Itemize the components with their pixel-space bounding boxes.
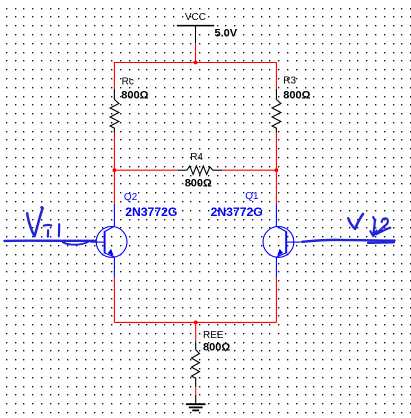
node Vi2 label: i dot — [373, 217, 375, 221]
wire: right vertical Q1 emitter to bottom rail — [275, 278, 277, 323]
svg-text:Q2: Q2 — [124, 192, 138, 203]
svg-text:800Ω: 800Ω — [121, 90, 148, 102]
node: junction bottom center — [194, 321, 198, 325]
node Vi1 label: i dash — [44, 224, 52, 227]
svg-text:Rc: Rc — [122, 76, 134, 87]
wire: REE to ground red segment — [195, 387, 197, 395]
node: junction left mid — [113, 168, 117, 172]
ground — [186, 395, 206, 410]
wire: REE stem red — [195, 322, 197, 341]
wire: top rail from Rc top to R3 top — [114, 63, 276, 90]
handwritten annotations — [5, 207, 395, 244]
svg-text:5.0V: 5.0V — [215, 28, 238, 40]
svg-text:R3: R3 — [283, 76, 296, 87]
wire: VCC stem red segment — [195, 43, 197, 62]
node Vi2 label: subscript 2 — [376, 218, 390, 234]
wire: middle rail right segment from R4 — [222, 169, 277, 171]
svg-text:800Ω: 800Ω — [283, 90, 310, 102]
wire: right vertical R3 bottom to Q1 collector — [275, 133, 277, 204]
wire: bottom rail — [114, 321, 276, 323]
wire: handwritten retrace swoosh left — [63, 242, 89, 245]
svg-text:REE: REE — [203, 330, 224, 341]
svg-text:800Ω: 800Ω — [185, 177, 212, 189]
node: junction at VCC / top rail — [194, 61, 198, 65]
node Vi1 label: subscript 1 left — [47, 230, 49, 236]
wire: left vertical Rc bottom to Q2 collector — [113, 133, 115, 204]
wire: left vertical Q2 emitter to bottom rail — [113, 278, 115, 323]
wire: handwritten input wire left (to Q2 base) — [5, 239, 97, 242]
wire: handwritten retrace right — [368, 241, 394, 244]
wire: middle rail left segment to R4 — [114, 169, 177, 171]
svg-text:2N3772G: 2N3772G — [125, 205, 177, 219]
power symbol VCC — [177, 26, 214, 44]
wire: handwritten input wire right (from Q1 base) — [302, 240, 395, 242]
resistor R3 — [272, 89, 281, 133]
transistor Q1 (right, NPN mirrored) — [263, 204, 301, 278]
transistor Q2 (left, NPN) — [90, 204, 127, 278]
node: junction right mid — [275, 168, 279, 172]
resistor R4 — [178, 166, 222, 174]
node Vi2 label: letter V — [348, 214, 363, 229]
svg-text:800Ω: 800Ω — [203, 341, 230, 353]
svg-text:Q1: Q1 — [245, 191, 259, 202]
svg-text:R4: R4 — [190, 152, 203, 163]
node Vi1 label: subscript 1 right — [58, 224, 60, 236]
node Vi1 label: letter V — [27, 207, 42, 236]
node Vi2 label: arrow stem — [373, 222, 375, 235]
svg-text:2N3772G: 2N3772G — [211, 205, 263, 219]
resistor Rc — [110, 89, 119, 133]
resistor REE — [192, 342, 200, 388]
node Vi2 label: arrow head — [370, 231, 376, 237]
svg-text:VCC: VCC — [185, 12, 206, 23]
